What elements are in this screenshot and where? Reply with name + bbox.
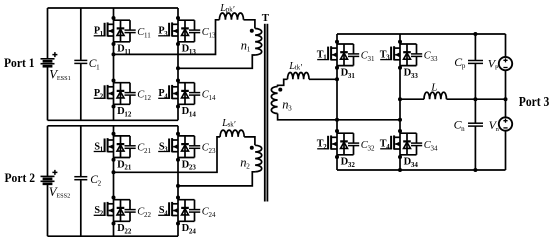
wire: cell bars and junctions of T3 [398, 40, 417, 70]
Port 2 label [5, 171, 36, 185]
winding n1 (port1 primary) [241, 29, 262, 55]
transistor S4 (MOSFET S4) [158, 202, 178, 218]
wire: Lpk to n1 winding top [244, 20, 255, 29]
voltage source Vn [489, 99, 513, 170]
battery VESS1 (port1 source) [41, 8, 71, 120]
capacitor Cn (negative output) [454, 99, 483, 172]
transistor S2 (MOSFET S2) [94, 202, 114, 218]
svg-text:Port 1: Port 1 [4, 56, 35, 70]
body diode D12 [117, 83, 132, 119]
snubber capacitor C23 [189, 136, 216, 158]
svg-text:T: T [262, 12, 270, 24]
svg-text:Port 2: Port 2 [5, 171, 36, 185]
Port 1 label [4, 56, 35, 70]
wire: n1 bottom to port1 leg2 midpoint [176, 55, 255, 70]
snubber capacitor C31 [348, 44, 375, 66]
snubber capacitor C34 [411, 133, 438, 155]
wire: port1 bottom rail [48, 119, 179, 121]
wire: port2 top rail [48, 125, 179, 127]
snubber capacitor C24 [189, 200, 216, 222]
wire: cell bars and junctions of S3 [176, 132, 195, 162]
snubber capacitor C33 [411, 44, 438, 66]
transistor P4 (MOSFET P4) [158, 85, 178, 100]
body diode D13 [181, 20, 196, 56]
wire: cell bars and junctions of P2 [112, 79, 131, 109]
inductor Ltk' (tertiary leakage) [288, 61, 310, 79]
Port 3 label [519, 94, 550, 109]
snubber capacitor C21 [125, 136, 152, 158]
wire: bridge3 left leg [336, 34, 338, 170]
battery VESS2 (port2 source) [41, 126, 71, 236]
transistor P3 (MOSFET P3) [158, 22, 178, 38]
voltage source VP [488, 34, 512, 99]
svg-text:L: L [430, 81, 437, 93]
filter inductor L [424, 81, 446, 99]
wire: port2 bottom rail [48, 235, 179, 237]
transistor P1 (MOSFET P1) [94, 22, 114, 38]
transistor P2 (MOSFET P2) [94, 85, 114, 100]
body diode D34 [403, 133, 418, 169]
wire: Lsk to n2 winding top [244, 137, 255, 145]
body diode D24 [181, 200, 196, 236]
capacitor Cp (positive output) [454, 32, 483, 99]
wire: cell bars and junctions of P3 [176, 16, 195, 46]
wire: cell bars and junctions of P1 [112, 16, 131, 46]
body diode D14 [181, 83, 196, 119]
wire: cell bars and junctions of S2 [112, 196, 131, 226]
snubber capacitor C12 [125, 83, 152, 105]
wire: port2 left bridge leg [113, 126, 115, 236]
snubber capacitor C22 [125, 200, 152, 222]
wire: cell bars and junctions of T2 [335, 129, 354, 159]
snubber capacitor C11 [125, 20, 152, 42]
wire: port1 leg1 midpoint to Lpk [112, 20, 220, 57]
inductor Lpk' (primary leakage) [219, 3, 243, 20]
body diode D32 [340, 133, 355, 169]
wire: inductor L to output mid rail [447, 97, 508, 101]
body diode D11 [117, 20, 132, 56]
wire: bridge3 top rail [337, 33, 506, 35]
transistor S1 (MOSFET S1) [94, 138, 114, 153]
snubber capacitor C13 [189, 20, 216, 42]
transistor T1 (MOSFET T1) [317, 46, 337, 62]
capacitor C1 [74, 8, 100, 120]
wire: Ltk to bridge3 left leg midpoint [309, 77, 339, 81]
body diode D33 [403, 44, 418, 80]
transistor S3 (MOSFET S3) [158, 138, 178, 153]
wire: n2 bottom to port2 leg2 midpoint [176, 172, 255, 188]
svg-text:Port 3: Port 3 [519, 94, 550, 109]
wire: cell bars and junctions of S4 [176, 196, 195, 226]
wire: port2 right bridge leg [177, 126, 179, 236]
wire: cell bars and junctions of P4 [176, 79, 195, 109]
wire: port1 left bridge leg [113, 8, 115, 120]
winding n3 (tertiary) [271, 87, 292, 114]
wire: bridge3 bottom rail [337, 168, 506, 172]
wire: cell bars and junctions of T4 [398, 129, 417, 159]
wire: port2 leg1 midpoint to Lsk [112, 137, 221, 174]
inductor Lsk' (secondary leakage) [220, 118, 244, 137]
wire: n3 bottom to bridge3 legs [278, 114, 402, 122]
body diode D22 [117, 200, 132, 236]
transistor T2 (MOSFET T2) [317, 135, 337, 151]
wire: n3 top to Ltk [278, 79, 288, 86]
wire: port1 right bridge leg [177, 8, 179, 120]
wire: cell bars and junctions of T1 [335, 40, 354, 70]
transistor T3 (MOSFET T3) [380, 46, 400, 62]
wire: bridge3 right leg midpoint to filter inductor [398, 97, 424, 101]
capacitor C2 [74, 126, 101, 236]
wire: cell bars and junctions of S1 [112, 132, 131, 162]
winding n2 (port2 primary) [240, 145, 261, 171]
transistor T4 (MOSFET T4) [380, 135, 400, 151]
body diode D23 [181, 136, 196, 172]
wire: port1 top rail [48, 7, 179, 9]
snubber capacitor C14 [189, 83, 216, 105]
snubber capacitor C32 [348, 133, 375, 155]
body diode D21 [117, 136, 132, 172]
wire: bridge3 right leg [399, 34, 401, 170]
body diode D31 [340, 44, 355, 80]
transformer core T [262, 12, 270, 201]
